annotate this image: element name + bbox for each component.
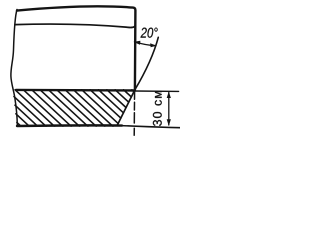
hatch line 2: [16, 114, 30, 127]
label 20 degrees: [141, 28, 158, 38]
cut-plane indicator line extended upward: [135, 37, 158, 89]
label 30 cm (rotated): [153, 91, 162, 126]
top extension line for dimension: [135, 90, 179, 92]
angle arc with arrows: [136, 42, 157, 46]
hatch line 5: [15, 90, 55, 127]
bevel cut edge (20 deg from vertical): [117, 90, 135, 126]
hatch line 17: [115, 90, 129, 102]
hatch line 15: [99, 90, 124, 113]
hatched band top edge (thick): [16, 89, 135, 92]
hatch line 18: [124, 90, 132, 97]
hatch line 3: [15, 105, 38, 126]
angle arc right arrowhead: [150, 43, 156, 47]
dashed continuation of vertical edge: [133, 91, 135, 135]
hatch line 16: [107, 90, 126, 108]
top edge of wall (thick, slightly bowed) with rounded top-right corner into right edge: [17, 6, 135, 89]
dimension line 30 cm: [168, 93, 170, 126]
hatch line 1: [17, 122, 21, 126]
dimension arrowhead bottom: [167, 119, 171, 126]
hatch line 10: [57, 90, 97, 127]
hatched band bottom edge (thick): [17, 124, 122, 127]
hatch line 14: [90, 90, 121, 118]
hatch lines (45-ish section hatching): [14, 90, 134, 127]
hatch line 6: [23, 90, 63, 127]
hatch line 7: [32, 90, 72, 127]
dimension arrowhead top: [167, 91, 171, 98]
angle arc left arrowhead: [133, 41, 140, 45]
hatch line 19: [132, 90, 134, 92]
hatch line 8: [40, 90, 80, 127]
hatch line 12: [74, 90, 114, 127]
hatch line 13: [82, 90, 118, 124]
hatch line 4: [14, 97, 46, 127]
bottom extension line continuing to right edge: [120, 126, 180, 128]
hatch line 11: [65, 90, 105, 127]
left wavy break line: [11, 10, 17, 126]
hatch line 9: [49, 90, 89, 127]
second horizontal line (underside of top cap): [15, 24, 135, 27]
